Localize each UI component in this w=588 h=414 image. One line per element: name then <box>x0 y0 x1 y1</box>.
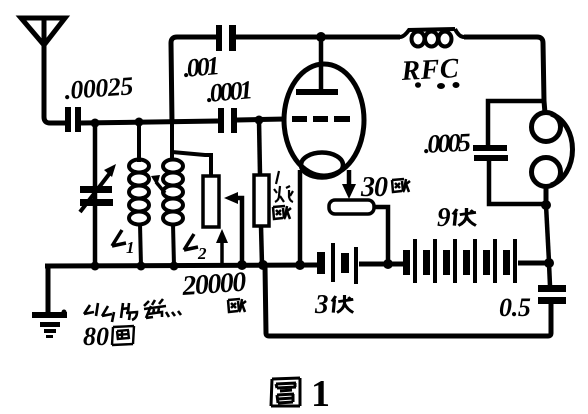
rail right of 3V battery <box>359 262 403 267</box>
label L2 <box>184 234 207 263</box>
wire A right part <box>237 119 285 120</box>
ground <box>32 266 67 338</box>
plate lead <box>319 37 324 90</box>
rheostat right wire <box>374 207 388 264</box>
rheostat 30 ohm <box>329 200 374 214</box>
svg-text:1: 1 <box>126 238 135 257</box>
filament right lead + arrow to rheostat <box>342 170 356 199</box>
capacitor C .00025 <box>65 107 81 132</box>
svg-text:RFC: RFC <box>400 53 460 87</box>
rail nodes <box>91 262 100 271</box>
note: L1 L2 are 80 turns, line 1 (L1L2均為) <box>84 299 181 322</box>
filament loop <box>301 153 343 178</box>
capacitor C .0001 <box>218 108 237 133</box>
plate bar <box>296 89 338 95</box>
caption 圖 1 <box>271 378 300 406</box>
phones branch top wire <box>488 101 544 145</box>
svg-text:80: 80 <box>83 322 109 351</box>
coupling arrow <box>151 175 165 193</box>
label 1 MegOhm (1兆歐) vertical <box>273 171 293 219</box>
battery 3V <box>317 243 358 284</box>
triode U1 envelope <box>284 64 364 176</box>
svg-text:2: 2 <box>197 244 207 263</box>
antenna <box>21 18 65 45</box>
wire B mid <box>236 35 400 40</box>
scan speck <box>62 310 67 315</box>
wire phones to battery junction <box>546 205 549 262</box>
variable capacitor (tuning) <box>80 123 116 266</box>
node grid-leak <box>255 116 264 125</box>
label ohm (歐) <box>228 299 246 312</box>
phones branch bottom wire <box>489 161 545 204</box>
note line 2 (80圈) <box>83 322 134 351</box>
resistor 1M grid leak <box>254 120 269 265</box>
wire antenna lead <box>44 44 66 123</box>
rail right of 9V battery <box>518 261 549 266</box>
capacitor .0005 <box>473 145 508 161</box>
coil L2 <box>163 123 183 266</box>
headphones <box>532 101 573 205</box>
svg-text:20000: 20000 <box>180 267 247 302</box>
node phones bottom <box>541 200 551 210</box>
svg-text:9: 9 <box>437 202 451 232</box>
coil L1 <box>129 122 149 266</box>
svg-text:.0001: .0001 <box>205 75 252 108</box>
wire B (plate top wire) <box>171 37 216 123</box>
wire A (grid line) <box>81 121 218 123</box>
svg-text:.00025: .00025 <box>63 71 134 105</box>
node varcap top <box>91 119 100 128</box>
wire B right + corner down <box>464 37 544 101</box>
node plate top <box>316 32 326 42</box>
bottom return wire <box>265 266 551 336</box>
RFC choke <box>400 29 464 47</box>
resistor 20000 ohm <box>172 152 219 227</box>
node L1 top <box>135 118 144 127</box>
filament left lead <box>298 170 303 265</box>
svg-text:3: 3 <box>314 289 329 319</box>
node battery right <box>544 258 554 268</box>
battery 9V <box>403 239 517 283</box>
label L1 <box>112 230 135 257</box>
grid (dashes) <box>292 116 350 122</box>
svg-text:0.5: 0.5 <box>499 293 531 322</box>
label ohm (歐) small <box>392 179 410 192</box>
capacitor C .001 <box>216 25 236 51</box>
capacitor 0.5 <box>538 263 566 304</box>
svg-text:.0005: .0005 <box>423 128 472 159</box>
wiper arrow of 20000 <box>224 192 242 265</box>
svg-text:30: 30 <box>360 172 388 203</box>
label arrow (points up to resistor) <box>216 229 228 263</box>
cathode rail <box>45 265 317 266</box>
svg-text:1: 1 <box>311 373 330 414</box>
